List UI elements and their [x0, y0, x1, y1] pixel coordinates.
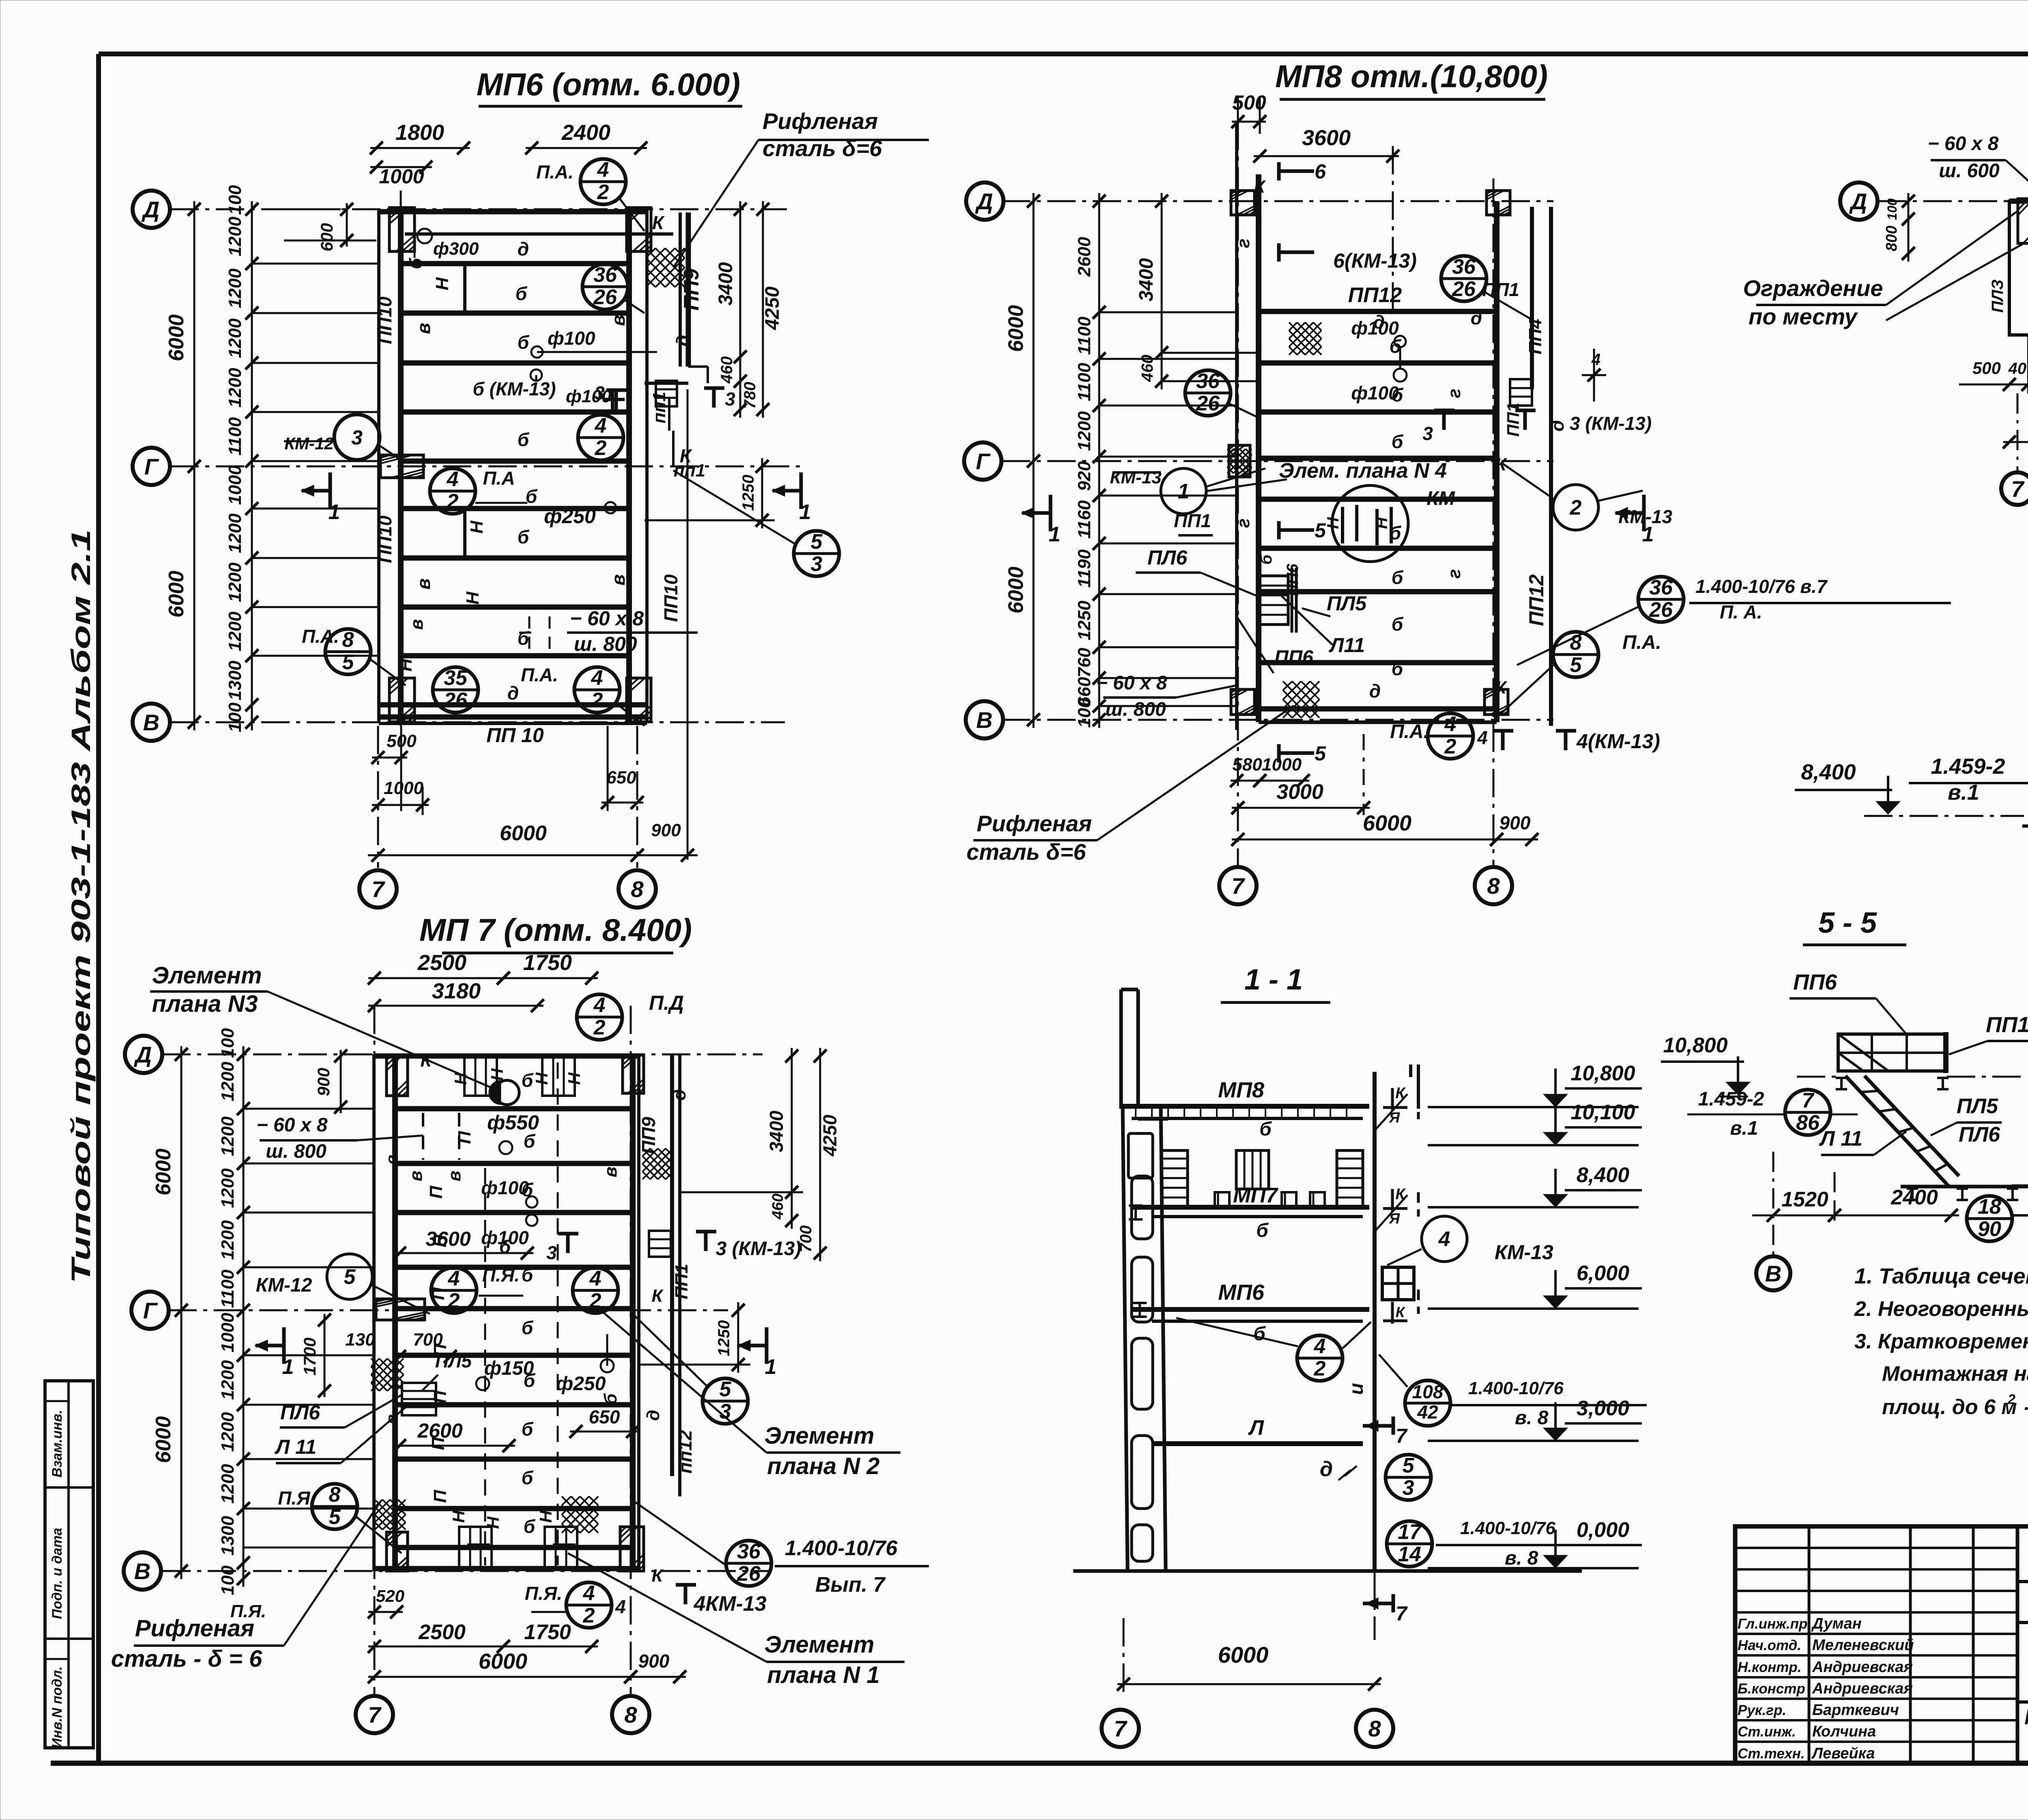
- svg-text:Элемент: Элемент: [764, 1423, 874, 1449]
- МП7 stub columns top row: [464, 1055, 497, 1096]
- svg-text:6000: 6000: [165, 314, 188, 361]
- svg-text:2: 2: [2007, 1392, 2015, 1407]
- svg-text:1 - 1: 1 - 1: [1244, 964, 1303, 996]
- МП12 6000 dim: [2003, 441, 2028, 443]
- svg-text:35: 35: [444, 666, 468, 690]
- svg-text:5: 5: [344, 1265, 356, 1289]
- svg-text:ПП6: ПП6: [1274, 647, 1313, 668]
- svg-text:К: К: [651, 1566, 664, 1586]
- title block personnel columns: [1808, 1526, 1811, 1763]
- svg-text:П: П: [428, 1437, 448, 1450]
- МП8 circle 2 КМ-13: [1553, 485, 1598, 530]
- svg-text:ПЛ5: ПЛ5: [1327, 592, 1367, 615]
- МП6 left dim chain values: [251, 201, 253, 730]
- svg-text:ПЛЗ: ПЛЗ: [1989, 279, 2007, 313]
- svg-text:6000: 6000: [165, 571, 188, 618]
- svg-text:2400: 2400: [561, 120, 610, 145]
- svg-text:1800: 1800: [395, 120, 444, 145]
- svg-text:0,000: 0,000: [1577, 1518, 1629, 1542]
- svg-text:ПЛ6: ПЛ6: [1959, 1123, 2000, 1146]
- МП7 filled half circle элемент N3: [489, 1080, 501, 1105]
- svg-text:б: б: [406, 258, 426, 269]
- svg-text:90: 90: [1978, 1217, 2001, 1241]
- svg-text:3: 3: [594, 382, 605, 403]
- МП7 ф150 mark: [476, 1377, 489, 1390]
- svg-text:650: 650: [589, 1406, 620, 1427]
- svg-text:17: 17: [1398, 1520, 1422, 1544]
- svg-text:б: б: [1257, 554, 1275, 564]
- svg-text:2: 2: [595, 436, 607, 460]
- svg-text:1: 1: [329, 500, 340, 524]
- МП7 top dims 2500/1750: [368, 977, 509, 979]
- svg-text:Н: Н: [432, 277, 452, 290]
- МП7 right dim 1250: [737, 1302, 739, 1373]
- svg-text:б: б: [1259, 1118, 1272, 1140]
- svg-text:400: 400: [2008, 360, 2028, 378]
- svg-text:5: 5: [1570, 653, 1582, 677]
- svg-text:1. Таблица сечений дана на: 1. Таблица сечений дана на листе КМ-12.: [1854, 1264, 2028, 1288]
- МП6 bottom dims: [372, 757, 407, 759]
- svg-text:в.1: в.1: [1730, 1118, 1758, 1139]
- svg-text:П: П: [430, 1390, 450, 1404]
- МП8 ladder icon right: [1510, 379, 1532, 406]
- МП7 4/2 circle mid right: [573, 1268, 618, 1313]
- svg-text:б: б: [518, 429, 530, 450]
- svg-text:600: 600: [317, 223, 336, 251]
- svg-text:в: в: [382, 1414, 401, 1424]
- svg-text:В: В: [143, 710, 159, 735]
- svg-text:в: в: [406, 1171, 426, 1182]
- svg-text:П.А: П.А: [483, 468, 515, 489]
- section 5-5 circle 18/90: [1967, 1196, 2012, 1241]
- svg-text:3600: 3600: [1302, 126, 1351, 150]
- svg-text:900: 900: [638, 1650, 670, 1672]
- svg-text:ПП6: ПП6: [1284, 563, 1302, 596]
- svg-text:1000: 1000: [225, 465, 245, 505]
- svg-text:1.400-10/76 в.7: 1.400-10/76 в.7: [1695, 576, 1828, 597]
- grid axis Д (МП8): [1002, 200, 1553, 202]
- svg-text:Андриевская: Андриевская: [1812, 1680, 1913, 1697]
- svg-text:2: 2: [593, 1016, 606, 1039]
- section 5-5 В circle: [1756, 1256, 1790, 1290]
- МП7 left beam: [372, 1054, 376, 1571]
- svg-text:3: 3: [1422, 423, 1433, 444]
- svg-text:Н: Н: [483, 1516, 503, 1529]
- svg-text:ПП9: ПП9: [638, 1117, 659, 1154]
- svg-text:ПП10: ПП10: [374, 515, 395, 563]
- МП8 column block bottom-left: [1231, 689, 1255, 715]
- svg-text:ф100: ф100: [548, 328, 595, 349]
- svg-text:Н: Н: [451, 1072, 470, 1085]
- svg-text:б: б: [522, 1317, 534, 1338]
- МП8 dim 4 small right: [1582, 374, 1606, 376]
- svg-text:б: б: [522, 1179, 534, 1200]
- svg-text:Д: Д: [1849, 189, 1867, 214]
- svg-text:Элем. плана N 4: Элем. плана N 4: [1279, 459, 1447, 483]
- svg-text:Элемент: Элемент: [152, 962, 262, 989]
- svg-text:б: б: [518, 526, 530, 547]
- grid circle Д (МП6): [133, 191, 170, 228]
- svg-text:плана N 1: плана N 1: [767, 1662, 879, 1688]
- svg-text:6: 6: [1315, 160, 1326, 183]
- svg-text:в. 8: в. 8: [1505, 1547, 1538, 1569]
- svg-text:б: б: [522, 1419, 534, 1440]
- section 1-1 middle boiler: [1236, 1150, 1269, 1189]
- svg-text:4: 4: [448, 1267, 460, 1290]
- svg-text:1200: 1200: [218, 1220, 238, 1260]
- svg-text:1: 1: [765, 1355, 777, 1379]
- svg-text:650: 650: [606, 768, 636, 788]
- svg-text:2600: 2600: [1074, 237, 1094, 277]
- svg-text:Ст.инж.: Ст.инж.: [1738, 1724, 1796, 1740]
- svg-text:Н: Н: [1324, 517, 1342, 529]
- svg-text:3400: 3400: [715, 262, 737, 305]
- svg-text:Н.контр.: Н.контр.: [1738, 1659, 1801, 1675]
- svg-text:1000: 1000: [379, 165, 424, 188]
- svg-text:- 1,0 тс/м: - 1,0 тс/м: [2024, 1395, 2028, 1419]
- svg-text:1100: 1100: [218, 1269, 238, 1308]
- svg-text:б: б: [601, 1393, 621, 1405]
- svg-text:26: 26: [1452, 277, 1476, 301]
- МП7 dim 3600: [393, 1252, 533, 1254]
- МП6 section mark 1 left: [329, 472, 332, 509]
- МП6 section mark 1 right: [799, 472, 803, 509]
- svg-text:1750: 1750: [523, 951, 572, 975]
- svg-text:б: б: [1392, 431, 1404, 452]
- svg-text:К: К: [651, 1286, 664, 1306]
- section 1-1 section mark 7 upper: [1392, 1417, 1395, 1435]
- svg-text:плана N 2: плана N 2: [767, 1453, 879, 1479]
- svg-text:8: 8: [1487, 873, 1500, 899]
- section 1-1 right top post: [1417, 1065, 1420, 1109]
- МП6 right dim 1250: [761, 458, 763, 528]
- svg-text:520: 520: [376, 1586, 404, 1605]
- svg-text:ПП1: ПП1: [1174, 510, 1211, 531]
- svg-text:760: 760: [1074, 648, 1094, 678]
- svg-text:1200: 1200: [225, 368, 245, 408]
- svg-text:5: 5: [329, 1505, 341, 1529]
- svg-text:площ. до 6 м: площ. до 6 м: [1882, 1395, 2017, 1419]
- МП6 section mark 3 right: [704, 386, 724, 390]
- МП6 beams б lower: [401, 506, 629, 511]
- grid axis Д (МП7): [162, 1054, 763, 1056]
- МП6 right beam ПП10: [626, 209, 632, 722]
- grid axis Г (МП6): [170, 466, 801, 468]
- svg-text:6000: 6000: [152, 1416, 175, 1463]
- svg-text:1000: 1000: [218, 1313, 238, 1352]
- svg-text:100: 100: [218, 1565, 238, 1595]
- svg-text:4: 4: [1444, 713, 1457, 736]
- column circle 7 (МП6): [359, 870, 397, 908]
- МП6 Н stub vertical row5: [463, 509, 466, 558]
- svg-text:1200: 1200: [218, 1464, 238, 1504]
- svg-text:ПП10: ПП10: [660, 574, 681, 622]
- svg-text:8: 8: [631, 876, 644, 902]
- svg-text:108: 108: [1412, 1381, 1444, 1402]
- section 1-1 mast top: [1119, 989, 1123, 1109]
- МП8 circle 1 КМ-13: [1161, 468, 1206, 514]
- svg-text:Г: Г: [976, 449, 991, 474]
- МП7 right appendix verticals: [670, 1054, 674, 1476]
- svg-text:МП6 (отм. 6.000): МП6 (отм. 6.000): [477, 67, 740, 102]
- svg-text:6000: 6000: [1218, 1642, 1269, 1668]
- МП7 ф250 mark: [601, 1359, 614, 1372]
- svg-text:Левейка: Левейка: [1811, 1745, 1875, 1762]
- svg-text:Г: Г: [143, 1298, 158, 1323]
- svg-text:86: 86: [1796, 1111, 1820, 1135]
- svg-text:− 60 x 8: − 60 x 8: [257, 1114, 328, 1136]
- svg-text:460: 460: [718, 356, 736, 384]
- svg-text:в: в: [382, 1155, 401, 1165]
- svg-text:ф100: ф100: [1351, 382, 1399, 403]
- МП7 section mark 1 right: [765, 1327, 769, 1364]
- svg-text:ш. 600: ш. 600: [1939, 160, 2000, 182]
- svg-text:2. Неоговоренные узлы приня: 2. Неоговоренные узлы приняты по серии 1…: [1854, 1297, 2028, 1321]
- МП8 left beam: [1235, 122, 1238, 730]
- МП8 section mark 5: [1277, 521, 1281, 539]
- svg-text:КМ-12: КМ-12: [284, 434, 334, 453]
- svg-text:3400: 3400: [766, 1110, 787, 1152]
- svg-text:26: 26: [1649, 598, 1673, 622]
- bottom-left margin table: [45, 1381, 93, 1748]
- svg-text:Вып. 7: Вып. 7: [815, 1573, 886, 1597]
- svg-text:б: б: [526, 486, 538, 507]
- svg-text:3: 3: [1403, 1476, 1414, 1500]
- svg-text:4: 4: [1477, 727, 1488, 748]
- svg-text:36: 36: [1649, 576, 1673, 599]
- section 5-5 platform box: [1838, 1034, 1947, 1071]
- svg-text:Инв.N подл.: Инв.N подл.: [49, 1666, 65, 1748]
- section 1-1 circle 4/2: [1297, 1335, 1343, 1381]
- svg-text:П.Я: П.Я: [278, 1487, 311, 1509]
- МП8 dim 500 top: [1232, 121, 1266, 123]
- svg-text:в: в: [445, 1171, 464, 1182]
- МП8 section mark 5 bottom: [1277, 744, 1281, 762]
- МП7 column at Г: [376, 1299, 425, 1320]
- svg-text:7: 7: [1802, 1089, 1815, 1112]
- МП7 beams: [395, 1106, 633, 1112]
- column axis 7 (МП8): [1237, 122, 1239, 866]
- section 1-1 circle 5/3: [1386, 1455, 1431, 1500]
- svg-text:б: б: [1390, 522, 1402, 543]
- МП8 beams: [1259, 309, 1497, 314]
- МП7 corner column bottom-right: [620, 1527, 644, 1571]
- svg-text:ПП12: ПП12: [1525, 574, 1548, 626]
- МП7 dim 2600: [393, 1445, 515, 1447]
- svg-text:П.А.: П.А.: [1622, 632, 1661, 653]
- МП7 extension lines: [243, 1108, 374, 1110]
- svg-text:КМ-13: КМ-13: [1110, 468, 1161, 487]
- svg-text:и: и: [1346, 1383, 1367, 1395]
- svg-text:2: 2: [597, 180, 609, 204]
- svg-text:К: К: [652, 212, 665, 233]
- grid axis Г (МП7): [168, 1309, 728, 1311]
- svg-text:1200: 1200: [225, 562, 245, 602]
- svg-text:4: 4: [1591, 351, 1600, 369]
- МП8 right beam: [1494, 201, 1500, 722]
- svg-text:6000: 6000: [500, 822, 547, 845]
- МП6 4/2 circle mid: [578, 415, 623, 460]
- svg-text:500: 500: [1972, 358, 2001, 378]
- МП6 column at Г: [380, 455, 423, 478]
- МП6 д-line top: [405, 232, 673, 236]
- svg-text:К: К: [1395, 1186, 1406, 1203]
- svg-text:д: д: [1471, 307, 1482, 328]
- МП6 ф300 mark: [417, 229, 432, 243]
- svg-text:8,400: 8,400: [1801, 760, 1856, 784]
- svg-text:6000: 6000: [1363, 811, 1411, 835]
- svg-text:Колчина: Колчина: [1812, 1723, 1876, 1740]
- svg-text:Барткевич: Барткевич: [1812, 1702, 1899, 1719]
- svg-text:1250: 1250: [1074, 601, 1094, 640]
- svg-text:36: 36: [1452, 255, 1476, 279]
- svg-text:100: 100: [225, 702, 245, 732]
- МП8 6000 chain: [1033, 193, 1035, 728]
- svg-text:3 (КМ-13): 3 (КМ-13): [1570, 413, 1652, 434]
- МП6 right dim chain 3400-460-780: [739, 201, 741, 418]
- section 5-5 right end cap: [1943, 1032, 1948, 1073]
- title block personnel rows: [1735, 1547, 2017, 1549]
- column axis 8 (МП6): [636, 726, 638, 868]
- svg-text:Л11: Л11: [1329, 634, 1365, 657]
- svg-text:б: б: [1253, 1323, 1266, 1345]
- column circle 8 (МП7): [612, 1696, 649, 1733]
- МП7 bottom chord: [374, 1566, 639, 1571]
- svg-text:ПП9: ПП9: [680, 268, 703, 311]
- svg-text:4(КМ-13): 4(КМ-13): [1576, 730, 1660, 753]
- section 1-1 column top box: [1128, 1133, 1153, 1178]
- МП7 dim 650: [570, 1431, 639, 1433]
- svg-text:3. Кратковременная нагрузка: 3. Кратковременная нагрузка на площадки …: [1854, 1330, 2028, 1353]
- svg-text:− 60 x 8: − 60 x 8: [1928, 133, 1999, 155]
- svg-text:д: д: [1369, 680, 1381, 702]
- svg-text:1: 1: [1178, 480, 1190, 503]
- МП12 platform outline: [2009, 201, 2028, 335]
- column circle 7 (МП7): [356, 1696, 393, 1733]
- svg-text:36: 36: [1196, 369, 1220, 393]
- svg-text:5: 5: [720, 1378, 732, 1401]
- svg-text:В: В: [976, 707, 993, 733]
- svg-text:в: в: [413, 323, 434, 334]
- МП6 left beam ПП10: [377, 209, 380, 722]
- svg-text:7: 7: [368, 1702, 382, 1728]
- svg-text:П.А.: П.А.: [1390, 721, 1429, 743]
- svg-text:10,800: 10,800: [1570, 1062, 1635, 1085]
- svg-text:900: 900: [651, 820, 681, 840]
- МП8 3400/460 chain: [1161, 193, 1163, 389]
- svg-text:7: 7: [2011, 476, 2025, 502]
- svg-text:100: 100: [1074, 698, 1094, 728]
- svg-text:Металлические площадки: Металлические площадки: [2024, 1706, 2028, 1729]
- svg-text:900: 900: [314, 1068, 333, 1096]
- svg-text:5: 5: [1315, 519, 1326, 542]
- svg-text:Н: Н: [449, 1510, 468, 1523]
- МП8 left dim chain: [1098, 193, 1100, 728]
- svg-text:26: 26: [737, 1562, 761, 1586]
- svg-text:Н: Н: [536, 1510, 555, 1523]
- svg-text:ф100: ф100: [566, 386, 612, 406]
- svg-text:1200: 1200: [225, 513, 245, 553]
- svg-text:П: П: [455, 1131, 475, 1144]
- svg-text:580: 580: [1232, 755, 1262, 775]
- svg-text:2: 2: [1570, 496, 1582, 519]
- column circle 7 (МП8): [1219, 867, 1257, 904]
- МП6 4/2 П.А circle under Г: [430, 468, 475, 514]
- svg-text:8: 8: [624, 1702, 637, 1728]
- svg-text:Элемент: Элемент: [764, 1631, 874, 1658]
- svg-text:6(КМ-13): 6(КМ-13): [1333, 249, 1417, 272]
- МП7 right beam: [630, 1054, 636, 1571]
- svg-text:1100: 1100: [225, 417, 245, 455]
- svg-text:2: 2: [448, 1289, 460, 1313]
- МП8 section mark 1 right: [1642, 495, 1646, 531]
- svg-text:Д: Д: [975, 189, 993, 214]
- svg-text:б: б: [522, 1467, 534, 1488]
- svg-text:Гл.инж.пр.: Гл.инж.пр.: [1738, 1616, 1811, 1632]
- svg-text:2500: 2500: [417, 951, 466, 975]
- svg-text:2400: 2400: [1891, 1186, 1938, 1209]
- svg-text:1: 1: [799, 500, 811, 524]
- section 1-1 МП7 platform line: [1132, 1205, 1369, 1210]
- svg-text:Типовой проект 903-1-183: Типовой проект 903-1-183 Альбом 2.1: [66, 529, 96, 1283]
- svg-text:4: 4: [589, 1267, 602, 1290]
- МП6 corner column top-left: [389, 208, 415, 251]
- МП6 5/3 circle right: [794, 531, 839, 576]
- svg-text:3: 3: [351, 426, 363, 449]
- МП8 8/5 П.А. circle: [1553, 632, 1598, 677]
- section 1-1 dash posts right: [1417, 1095, 1420, 1119]
- svg-text:б: б: [1392, 658, 1404, 679]
- svg-text:ПП1: ПП1: [1986, 1013, 2028, 1037]
- svg-text:МП 7 (отм. 8.400): МП 7 (отм. 8.400): [419, 912, 692, 948]
- svg-text:д: д: [643, 1410, 663, 1421]
- МП7 4КМ-13 mark bottom: [676, 1583, 696, 1587]
- МП12 top chord: [2009, 199, 2028, 204]
- grid circle Г (МП6): [133, 448, 170, 485]
- svg-text:3400: 3400: [1136, 258, 1157, 301]
- svg-text:− 60 x 8: − 60 x 8: [570, 607, 644, 630]
- svg-text:плана N3: плана N3: [152, 991, 258, 1017]
- svg-text:1200: 1200: [225, 268, 245, 308]
- svg-text:1200: 1200: [218, 1168, 238, 1208]
- МП6 right dim chain 4250: [762, 201, 764, 418]
- svg-text:К: К: [1254, 177, 1266, 197]
- МП12 bottom dim chain: [1959, 384, 2028, 386]
- section 1-1 circle 108/42: [1405, 1380, 1450, 1426]
- МП7 corner column top-left: [387, 1055, 408, 1096]
- МП8 section 3 marks: [1434, 409, 1454, 412]
- svg-text:Думан: Думан: [1811, 1615, 1862, 1632]
- МП7 left dim chain: [243, 1046, 245, 1587]
- svg-text:МП6: МП6: [1218, 1280, 1265, 1305]
- svg-text:1300: 1300: [225, 661, 245, 700]
- svg-text:Монтажная нагрузка от обору: Монтажная нагрузка от оборудования на: [1882, 1362, 2028, 1386]
- svg-text:1200: 1200: [225, 612, 245, 651]
- МП7 5/3 circle right: [702, 1378, 748, 1424]
- svg-text:В: В: [134, 1558, 150, 1584]
- section 1-1 lattice column: [1123, 1109, 1128, 1571]
- svg-text:К: К: [680, 445, 692, 466]
- МП6 ПП1 stub right: [668, 398, 670, 431]
- svg-text:26: 26: [593, 285, 617, 309]
- МП6 top chord: [379, 209, 647, 215]
- svg-text:26: 26: [443, 689, 468, 712]
- МП8 ф100 marks: [1394, 336, 1406, 347]
- МП8 36/26 П.А. right callout: [1638, 577, 1684, 622]
- section 1-1 section mark 7 lower: [1392, 1594, 1395, 1612]
- svg-text:1.400-10/76: 1.400-10/76: [785, 1537, 898, 1560]
- grid circle В (МП8): [966, 701, 1003, 738]
